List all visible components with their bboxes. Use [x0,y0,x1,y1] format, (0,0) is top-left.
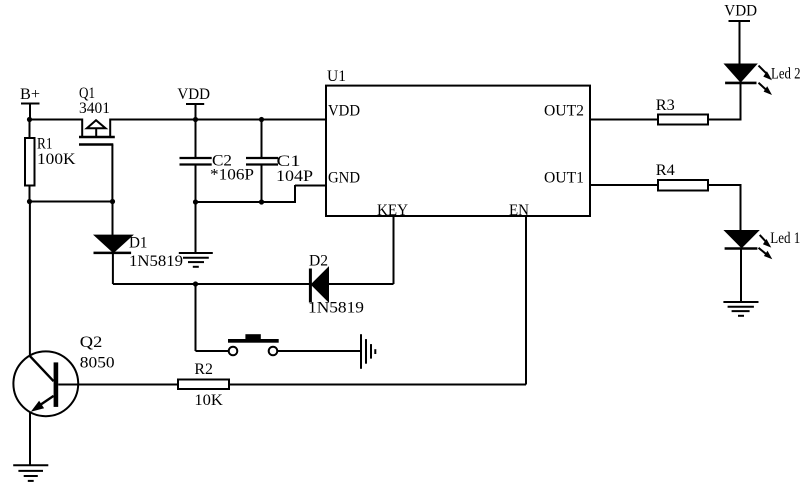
diode D2 1N5819 [308,253,364,317]
svg-text:D1: D1 [129,235,148,252]
node C1 bottom junction [259,199,264,204]
node B+ junction [27,117,32,122]
transistor Q1 3401 P-MOSFET [79,85,115,145]
ground under C2 [179,253,213,267]
capacitor C1 104P [246,120,313,203]
wire button right to earth [277,350,360,352]
wire R1 bottom to gate node [30,201,113,203]
wire jog up to GND pin [294,185,296,203]
svg-text:R2: R2 [194,361,213,378]
svg-text:3401: 3401 [79,100,110,117]
resistor R4 [590,162,742,191]
resistor R1 100K [25,120,76,202]
wire top rail left (B+ to Q1 source) [29,119,84,121]
ground sideways (right of button) [361,334,375,369]
svg-text:R3: R3 [656,97,675,114]
svg-text:100K: 100K [37,151,76,168]
wire R4 corner down to LED1 [740,185,742,232]
svg-text:10K: 10K [194,392,223,409]
svg-text:VDD: VDD [177,86,210,103]
wire KEY pin vertical [393,216,395,284]
svg-text:VDD: VDD [724,3,757,20]
node C1 top junction [259,117,264,122]
svg-text:Led 2: Led 2 [771,66,801,83]
svg-text:OUT1: OUT1 [544,170,584,187]
node C2 bottom junction [193,199,198,204]
ground under LED1 [723,302,758,316]
wire button drop [195,284,197,351]
svg-text:1N5819: 1N5819 [129,253,183,270]
LED Led1 [725,230,801,302]
svg-text:VDD: VDD [328,103,360,120]
wire Q2 base to R2 [58,384,178,386]
svg-text:R1: R1 [37,136,53,153]
wire LED2 corner to R3 [708,119,742,121]
svg-text:B+: B+ [20,86,40,103]
svg-text:OUT2: OUT2 [544,103,584,120]
node VDD terminal (top middle) [177,86,210,120]
push button switch [228,334,279,355]
wire collector rail down to Q2 [29,202,31,358]
node button drop junction [193,281,198,286]
wire Q1 gate down to node [111,145,113,202]
wire to button left [196,350,229,352]
svg-text:1N5819: 1N5819 [308,300,364,317]
svg-text:Q2: Q2 [80,334,103,351]
op-amp U1 box [326,68,590,219]
node VDD drop junction [193,117,198,122]
capacitor C2 *106P [180,120,255,203]
node VDD terminal (top right) [724,3,757,65]
junction dots [27,117,264,287]
svg-text:8050: 8050 [80,355,115,372]
wire top rail (Q1 drain to U1 VDD pin) [110,119,326,121]
resistor R2 10K [178,361,229,409]
node B+ terminal [20,86,40,120]
wire EN to R2 [229,384,526,386]
resistor R3 [590,97,708,125]
node R1 bottom junction [27,199,32,204]
svg-text:Led 1: Led 1 [770,230,800,247]
wire EN pin vertical [525,216,527,385]
node gate junction [110,199,115,204]
svg-text:D2: D2 [309,253,328,270]
wire into U1 GND pin [295,185,326,187]
wire C2 bottom down to ground [195,202,197,253]
svg-text:R4: R4 [656,162,675,179]
svg-text:104P: 104P [276,168,313,185]
wire D1 to D2 [113,283,310,285]
LED Led2 [725,65,800,121]
wire D2 to KEY corner [327,283,394,285]
wire cap bottoms rail [196,201,296,203]
svg-text:U1: U1 [327,68,346,85]
wire Q2 emitter down [29,412,31,466]
ground under Q2 [13,465,48,481]
transistor Q2 8050 NPN [13,334,114,416]
svg-text:*106P: *106P [210,167,254,184]
svg-text:GND: GND [328,170,360,187]
diode D1 1N5819 [94,202,184,285]
